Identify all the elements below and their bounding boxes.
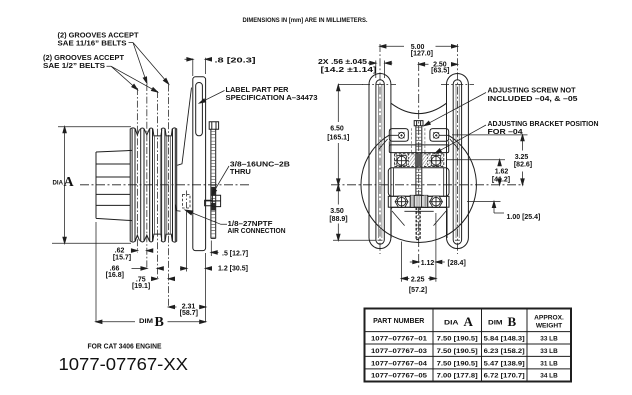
svg-text:6.23 [158.2]: 6.23 [158.2] (484, 348, 525, 355)
svg-text:DIA: DIA (53, 181, 64, 187)
bolt hex head (209, 122, 218, 129)
svg-text:LABEL PART PER: LABEL PART PER (226, 87, 289, 94)
svg-text:THRU: THRU (230, 169, 251, 176)
svg-text:1077–07767–03: 1077–07767–03 (371, 348, 428, 355)
RIGHT VIEW (331, 44, 528, 282)
V groove notches bottom (135, 234, 172, 241)
table column lines (433, 309, 527, 382)
svg-text:WEIGHT: WEIGHT (536, 323, 562, 330)
svg-text:2.25: 2.25 (411, 276, 425, 283)
hub (96, 150, 132, 220)
svg-text:APPROX.: APPROX. (534, 315, 564, 322)
dim 5.00 lines (380, 45, 457, 47)
gusset diagonal line (177, 88, 191, 166)
svg-text:FOR –04: FOR –04 (488, 129, 523, 136)
svg-text:[58.7]: [58.7] (180, 310, 198, 317)
dim 2.25 lines and exts (402, 242, 436, 282)
thread engagement dark zones (211, 187, 215, 196)
svg-text:.5 [12.7]: .5 [12.7] (222, 250, 248, 257)
dim .62 lines (131, 250, 153, 252)
hidden tapped hole dashed (183, 195, 191, 209)
svg-text:1.2 [30.5]: 1.2 [30.5] (218, 266, 248, 273)
band borders (395, 154, 444, 167)
lower body inner line (404, 210, 433, 212)
svg-text:B: B (155, 315, 164, 330)
arrows left view (63, 127, 66, 133)
svg-text:1077–07767–04: 1077–07767–04 (371, 360, 428, 367)
tapped hole centerline (186, 191, 188, 215)
big pulley circle (361, 135, 476, 242)
body inner verticals (394, 168, 444, 196)
svg-text:[14.2 ±1.14]: [14.2 ±1.14] (321, 67, 377, 74)
screw rod lower (416, 207, 420, 239)
svg-text:INCLUDED –04, & –05: INCLUDED –04, & –05 (488, 96, 578, 103)
top left lobe (389, 129, 408, 142)
right slot bottom tick (455, 239, 460, 241)
pulley groove section body verticals (130, 129, 177, 242)
bolt thread rungs (212, 132, 216, 238)
svg-text:[82.6]: [82.6] (514, 162, 532, 169)
svg-text:[16.8]: [16.8] (106, 272, 124, 279)
dim 1.62 ext and line (446, 160, 505, 185)
svg-text:A: A (464, 314, 474, 329)
svg-text:SAE 11/16” BELTS: SAE 11/16” BELTS (58, 41, 127, 48)
band hidden dotted verticals (408, 154, 427, 167)
svg-text:1.12: 1.12 (421, 260, 435, 267)
screw head (414, 121, 423, 126)
top screw holes with tick marks (399, 132, 440, 138)
svg-text:5.84 [148.3]: 5.84 [148.3] (484, 336, 525, 343)
svg-text:5.47 [138.9]: 5.47 [138.9] (484, 360, 525, 367)
hidden hole dashes top block (412, 128, 425, 152)
leader 3/8 (212, 166, 229, 194)
left bracket slot (376, 80, 384, 244)
hook break line (176, 205, 181, 212)
right slot stud lines (456, 84, 459, 238)
dim 2.50 lines (419, 63, 458, 65)
svg-text:[19.1]: [19.1] (132, 283, 150, 290)
top tier2 strip (389, 145, 448, 153)
arrows right view (380, 45, 386, 48)
svg-text:.8 [20.3]: .8 [20.3] (215, 57, 256, 64)
V groove notches top (135, 129, 172, 136)
dim .56 lines and exts (368, 61, 392, 79)
side connectors (389, 141, 448, 145)
svg-text:[28.4]: [28.4] (448, 260, 466, 267)
dim 1.2 lines and ext (180, 211, 212, 272)
mounting disc plate (193, 77, 206, 251)
left slot bottom tick (378, 239, 383, 241)
left slotted bracket outer (369, 73, 391, 248)
screw thread rungs (417, 128, 422, 195)
lower body chamfers (392, 211, 446, 226)
dim .5 line and ext (211, 241, 218, 257)
TEXTS LEFT VIEW (43, 17, 368, 374)
dim 1.12 lines and ext (410, 213, 445, 266)
main body block (388, 168, 449, 196)
leader adj bracket (435, 125, 486, 153)
dim DIA A extension lines (52, 127, 131, 243)
bar hex bolts (395, 196, 443, 207)
svg-text:6.72 [170.7]: 6.72 [170.7] (484, 373, 525, 380)
svg-text:DIM: DIM (139, 318, 153, 325)
adjusting bracket hatch band (388, 154, 451, 166)
bolt shaft (211, 129, 216, 238)
svg-text:1077-07767-XX: 1077-07767-XX (59, 354, 189, 374)
svg-text:7.00 [177.8]: 7.00 [177.8] (437, 373, 478, 380)
lower body (391, 207, 447, 238)
dim 2.31 lines (169, 306, 206, 308)
PART TABLE (365, 309, 572, 382)
leader label part (200, 91, 224, 103)
svg-text:1.00 [25.4]: 1.00 [25.4] (507, 214, 541, 221)
right bracket slot (453, 80, 461, 244)
svg-text:DIM: DIM (488, 320, 503, 327)
svg-text:[88.9]: [88.9] (329, 216, 347, 223)
svg-text:3/8–16UNC–2B: 3/8–16UNC–2B (230, 162, 290, 169)
dim 1.00 ext and leader (467, 202, 504, 213)
svg-text:ADJUSTING BRACKET POSITION: ADJUSTING BRACKET POSITION (488, 121, 599, 128)
dim 6.50 and 3.50 lines (333, 84, 376, 240)
svg-text:B: B (508, 314, 517, 329)
svg-text:3.25: 3.25 (515, 154, 529, 161)
svg-text:7.50 [190.5]: 7.50 [190.5] (437, 336, 478, 343)
centerline left view (80, 184, 250, 186)
svg-text:34 LB: 34 LB (540, 373, 558, 380)
groove centerlines dash-dot (137, 84, 168, 308)
top right lobe (430, 129, 449, 142)
svg-text:[41.2]: [41.2] (492, 176, 510, 183)
leader grooves 1-2 (107, 66, 157, 91)
svg-text:(2) GROOVES ACCEPT: (2) GROOVES ACCEPT (58, 32, 140, 39)
left slot stud lines (379, 84, 382, 238)
svg-text:ADJUSTING SCREW NOT: ADJUSTING SCREW NOT (488, 87, 577, 94)
svg-text:6.50: 6.50 (330, 126, 344, 133)
housing sag curve (391, 103, 447, 113)
svg-text:(2) GROOVES ACCEPT: (2) GROOVES ACCEPT (43, 55, 125, 62)
air fitting blocks (205, 195, 221, 206)
table outer border (365, 309, 572, 382)
hole wing lines (389, 134, 448, 136)
svg-text:SAE 1/2” BELTS: SAE 1/2” BELTS (43, 63, 105, 70)
DIMENSIONS RIGHT VIEW (368, 46, 528, 281)
svg-text:[57.2]: [57.2] (409, 287, 427, 294)
svg-text:7.50 [190.5]: 7.50 [190.5] (437, 348, 478, 355)
svg-text:A: A (64, 175, 75, 190)
svg-text:SPECIFICATION A–34473: SPECIFICATION A–34473 (226, 95, 318, 102)
left slot horizontal centerline (362, 83, 396, 85)
dim .75 lines (152, 278, 175, 280)
svg-text:[127.0]: [127.0] (411, 50, 433, 57)
dim 3.25 ext and line (452, 135, 528, 185)
table row lines (365, 332, 572, 369)
hidden groove walls dashed (154, 137, 170, 234)
screw shank (416, 126, 422, 196)
svg-text:33 LB: 33 LB (540, 336, 558, 343)
TEXTS RIGHT VIEW (318, 44, 599, 294)
svg-text:33 LB: 33 LB (540, 348, 558, 355)
svg-text:1077–07767–05: 1077–07767–05 (371, 373, 428, 380)
svg-text:2X .56 ±.045: 2X .56 ±.045 (318, 59, 367, 66)
center screw block in bar (410, 195, 427, 207)
svg-text:FOR CAT 3406 ENGINE: FOR CAT 3406 ENGINE (88, 344, 162, 351)
svg-text:DIA: DIA (444, 320, 459, 327)
right slot horizontal centerline (441, 83, 474, 85)
left slot centerline (379, 44, 381, 254)
svg-text:AIR CONNECTION: AIR CONNECTION (228, 228, 286, 235)
svg-text:[165.1]: [165.1] (327, 135, 349, 142)
main vertical centerline (418, 62, 420, 268)
dim .8 extensions (193, 58, 206, 76)
svg-text:1.62: 1.62 (495, 168, 509, 175)
DIMENSIONS LEFT VIEW (52, 43, 229, 323)
svg-text:1077–07767–01: 1077–07767–01 (371, 336, 428, 343)
ridge caps top (130, 128, 177, 130)
ridge caps bottom (130, 241, 177, 243)
main horizontal centerline (331, 184, 524, 186)
dim B line and ext (96, 222, 206, 322)
chamfer lines to circle (379, 139, 459, 150)
svg-text:PART NUMBER: PART NUMBER (373, 318, 424, 325)
bolt bar (388, 196, 449, 207)
svg-text:[15.7]: [15.7] (113, 254, 131, 261)
svg-text:DIMENSIONS IN [mm] ARE IN MILL: DIMENSIONS IN [mm] ARE IN MILLIMETERS. (243, 17, 368, 24)
screw dark in band (415, 154, 422, 167)
svg-text:[63.5]: [63.5] (431, 68, 449, 75)
dim .8 arrows lines (185, 58, 212, 60)
label slot (196, 83, 203, 136)
leader 1/8 (188, 211, 228, 224)
adjusting nuts (395, 154, 444, 167)
right slotted bracket outer (447, 73, 469, 248)
svg-text:7.50 [190.5]: 7.50 [190.5] (437, 360, 478, 367)
svg-text:3.50: 3.50 (330, 208, 344, 215)
svg-text:31 LB: 31 LB (540, 360, 558, 367)
right slot centerline (456, 44, 458, 254)
dim DIA A line (64, 127, 66, 243)
ext plate right (205, 253, 207, 322)
svg-text:.62: .62 (115, 247, 125, 254)
leader grooves 11-16 (129, 43, 168, 83)
leader adj screw (424, 93, 486, 126)
dim .66 lines (132, 267, 164, 269)
